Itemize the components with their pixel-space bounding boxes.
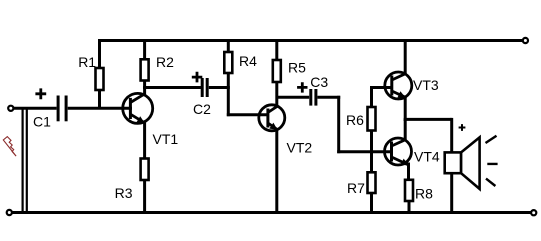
svg-text:VT3: VT3: [413, 77, 439, 93]
svg-text:VT1: VT1: [153, 131, 179, 147]
svg-text:R7: R7: [347, 180, 365, 196]
svg-text:C2: C2: [193, 101, 211, 117]
svg-text:R4: R4: [239, 53, 257, 69]
svg-text:VT2: VT2: [287, 139, 313, 155]
svg-text:VT4: VT4: [414, 148, 440, 164]
svg-text:R3: R3: [115, 185, 133, 201]
svg-text:R1: R1: [78, 54, 96, 70]
svg-text:R2: R2: [156, 54, 174, 70]
svg-text:R8: R8: [415, 186, 433, 202]
svg-text:R6: R6: [346, 112, 364, 128]
svg-text:C1: C1: [33, 113, 51, 129]
svg-text:C3: C3: [310, 74, 328, 90]
svg-text:R5: R5: [288, 60, 306, 76]
